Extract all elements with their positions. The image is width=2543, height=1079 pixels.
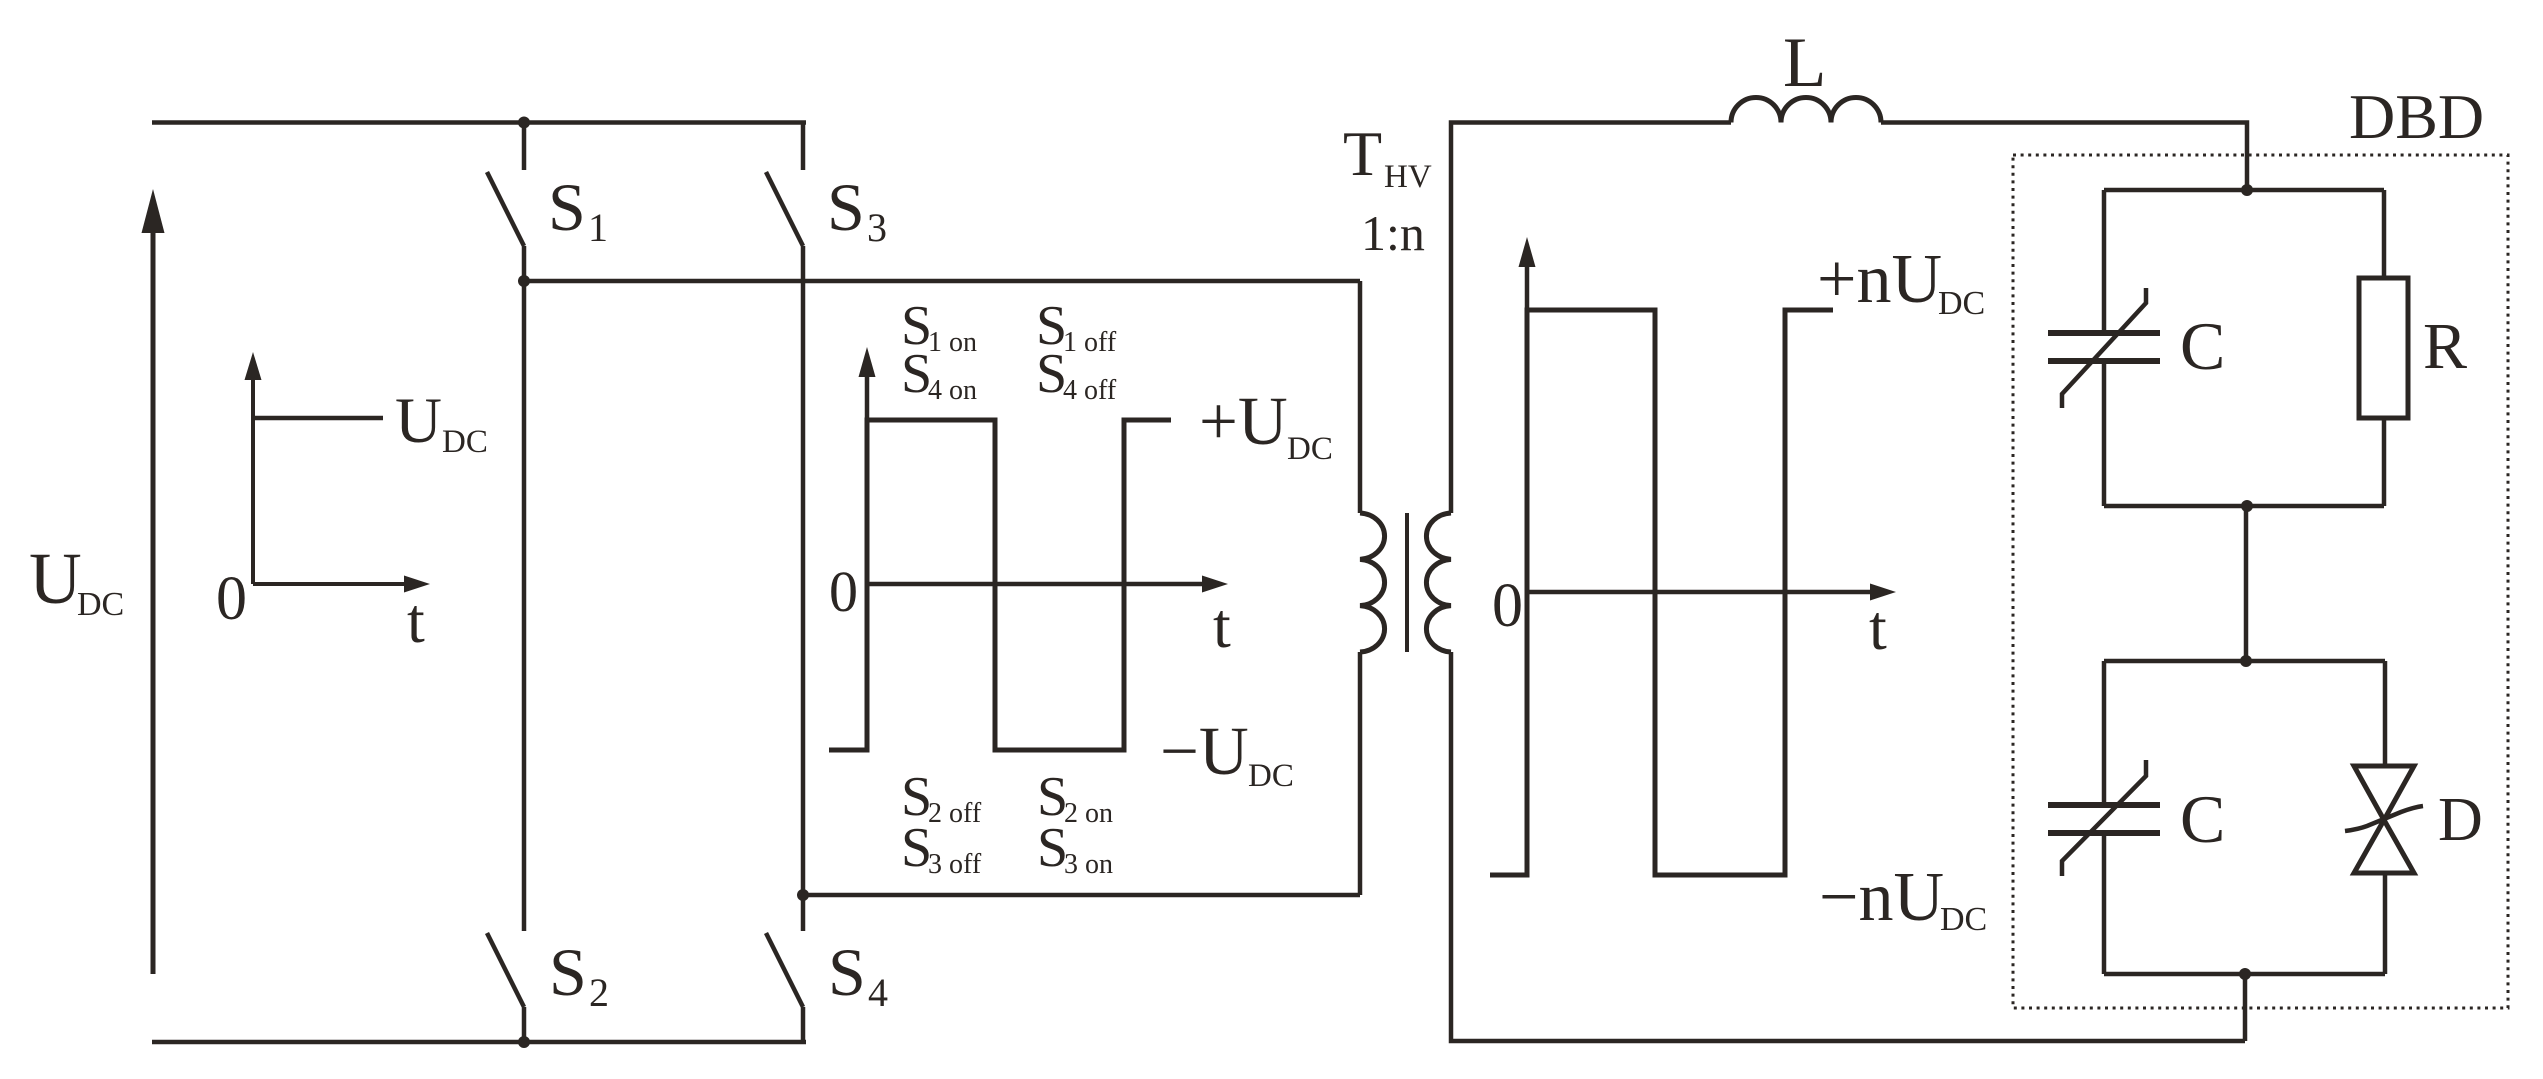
svg-text:S: S [828, 934, 866, 1010]
label S3 on [1037, 817, 1113, 880]
svg-text:U: U [395, 385, 442, 457]
label -nU_DC [1819, 859, 1987, 938]
node junction lower group top [2240, 655, 2252, 667]
svg-text:1: 1 [588, 205, 608, 250]
node junction S4 top (box bottom) [797, 889, 809, 901]
wire lower group top [2104, 659, 2385, 664]
svg-text:L: L [1783, 24, 1826, 102]
svg-text:3 off: 3 off [928, 849, 982, 880]
svg-text:DC: DC [1938, 285, 1985, 322]
node junction S2 bottom [518, 1036, 530, 1048]
svg-text:t: t [407, 585, 425, 656]
transformer T_HV primary coil [1360, 513, 1385, 652]
svg-text:S: S [548, 169, 586, 245]
wire S3-S4 leg [801, 281, 806, 895]
wire DBD to bottom bus [2243, 974, 2248, 1041]
label S2 off [901, 766, 982, 829]
transformer T_HV secondary coil [1426, 513, 1451, 652]
svg-text:0: 0 [216, 565, 247, 633]
resistor R [2359, 190, 2408, 506]
wire inverter mid rail (box top) [524, 279, 1360, 284]
label U_DC source [29, 538, 124, 623]
svg-text:−nU: −nU [1819, 859, 1944, 936]
middle graph axes [859, 347, 1229, 750]
label S4 [828, 934, 888, 1015]
svg-text:U: U [29, 538, 82, 619]
wire lower group bottom [2104, 972, 2385, 977]
label S1 on [901, 295, 977, 358]
wire upper group top [2104, 188, 2384, 193]
label S3 [827, 169, 887, 250]
DBD dotted enclosure [2013, 155, 2508, 1008]
svg-text:1 off: 1 off [1063, 327, 1117, 358]
transformer core [1405, 513, 1409, 652]
svg-text:S: S [549, 934, 587, 1010]
svg-text:1:n: 1:n [1361, 205, 1425, 261]
svg-text:t: t [1213, 590, 1231, 661]
wire top-left DC bus [152, 120, 806, 125]
svg-text:DC: DC [1248, 758, 1294, 794]
svg-text:t: t [1869, 592, 1887, 663]
diode D bidirectional [2354, 661, 2414, 974]
U_DC source annotation arrow [142, 189, 165, 974]
label S1 [548, 169, 608, 250]
svg-text:DC: DC [1940, 901, 1987, 938]
svg-text:+nU: +nU [1817, 241, 1942, 318]
node junction lower group bottom [2239, 968, 2251, 980]
capacitor C lower variable arrow [2062, 760, 2146, 876]
label +nU_DC [1817, 241, 1985, 322]
label T_HV [1343, 118, 1432, 195]
diode D strike line [2345, 806, 2423, 831]
svg-text:4 off: 4 off [1063, 375, 1117, 406]
svg-text:DC: DC [442, 424, 488, 460]
capacitor C lower plates [2048, 805, 2160, 833]
svg-text:3: 3 [867, 205, 887, 250]
svg-text:+U: +U [1199, 383, 1288, 459]
svg-text:4 on: 4 on [928, 375, 977, 406]
svg-text:4: 4 [868, 970, 888, 1015]
capacitor C upper variable arrow [2062, 288, 2146, 408]
svg-text:−U: −U [1160, 713, 1249, 789]
label S4 off [1036, 343, 1117, 406]
svg-text:R: R [2423, 310, 2467, 383]
node junction upper group bottom [2241, 500, 2253, 512]
node junction S1 top [518, 117, 530, 129]
svg-text:DBD: DBD [2349, 81, 2484, 152]
label S2 [549, 934, 609, 1015]
label S3 off [901, 817, 982, 880]
label S4 on [901, 343, 977, 406]
middle graph square wave [829, 420, 1171, 750]
wire upper group bottom [2104, 504, 2384, 509]
switch S1 [487, 123, 524, 282]
label left inset U_DC [395, 385, 488, 460]
svg-text:D: D [2438, 786, 2483, 854]
right graph square wave [1490, 310, 1833, 875]
capacitor C lower branch wires [2102, 661, 2107, 974]
svg-text:3 on: 3 on [1064, 849, 1113, 880]
capacitor C upper branch wires [2102, 190, 2107, 506]
wire top to DBD [1881, 123, 2247, 191]
wire box right edge lower [1358, 652, 1363, 895]
switch S4 [766, 895, 803, 1042]
svg-text:C: C [2180, 308, 2225, 384]
node junction S1 bottom rail [518, 275, 530, 287]
label +U_DC [1199, 383, 1333, 467]
svg-text:2: 2 [589, 970, 609, 1015]
svg-text:T: T [1343, 118, 1382, 189]
wire bottom-left DC bus [152, 1040, 806, 1045]
svg-text:0: 0 [829, 559, 858, 624]
label S2 on [1037, 766, 1113, 829]
svg-text:1 on: 1 on [928, 327, 977, 358]
svg-text:2 on: 2 on [1064, 798, 1113, 829]
svg-text:2 off: 2 off [928, 798, 982, 829]
svg-text:S: S [827, 169, 865, 245]
left inset graph axes [245, 352, 431, 593]
wire box bottom [803, 893, 1360, 898]
right graph axes [1519, 237, 1897, 875]
wire box right edge upper [1358, 281, 1363, 513]
svg-text:DC: DC [77, 586, 124, 623]
label S1 off [1036, 295, 1117, 358]
capacitor C upper plates [2048, 333, 2160, 361]
inductor L [1731, 98, 1881, 123]
switch S3 [766, 123, 803, 282]
label -U_DC [1160, 713, 1294, 794]
svg-text:0: 0 [1492, 572, 1523, 640]
node junction DBD top [2241, 184, 2253, 196]
svg-text:C: C [2180, 781, 2225, 857]
wire secondary bottom bus [1451, 652, 2245, 1041]
left inset U_DC level line [253, 416, 383, 421]
svg-text:DC: DC [1287, 431, 1333, 467]
wire link between groups [2244, 506, 2249, 661]
svg-text:HV: HV [1384, 159, 1432, 195]
switch S2 [487, 281, 524, 1042]
wire secondary left and top [1451, 123, 1731, 514]
